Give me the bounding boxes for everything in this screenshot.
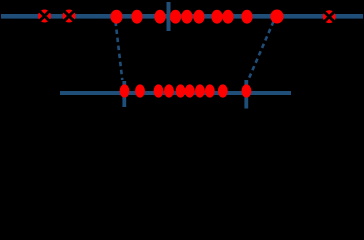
- dashed connector left: [116, 22, 123, 81]
- bottom mutation dot b: [135, 84, 145, 97]
- top tick mark (centromere): [167, 2, 171, 31]
- bottom mutation dot g: [195, 84, 205, 97]
- bottom mutation dot f: [185, 84, 195, 97]
- top mutation dot E: [181, 10, 192, 24]
- top mutation dot C: [154, 10, 165, 24]
- top mutation dot B: [131, 10, 142, 24]
- top mutation dot I: [241, 10, 252, 24]
- crossed-out mutation dot 1: [38, 10, 51, 23]
- crossed-out mutation dot 2: [63, 10, 76, 23]
- top mutation dot F: [193, 10, 204, 24]
- bottom right boundary tick: [244, 80, 248, 109]
- bottom left boundary tick: [122, 81, 126, 107]
- top mutation dot J (anchor of right connector): [270, 10, 283, 24]
- top chromosome line: [1, 14, 363, 19]
- top mutation dot G: [211, 10, 222, 24]
- top mutation dot H: [222, 10, 233, 24]
- dashed connector right: [248, 22, 274, 81]
- bottom mutation dot j (on right tick): [241, 84, 251, 97]
- bottom mutation dot e: [176, 84, 186, 97]
- crossed-out mutation dot 3: [323, 10, 336, 23]
- top mutation dot D: [170, 10, 181, 24]
- bottom mutation dot a (on left tick): [120, 84, 130, 97]
- bottom mutation dot c: [154, 84, 164, 97]
- bottom mutation dot i: [218, 84, 228, 97]
- bottom mutation dot d: [164, 84, 174, 97]
- bottom mutation dot h: [205, 84, 215, 97]
- bottom zoomed-region line: [60, 91, 291, 95]
- top mutation dot A (anchor of left connector): [111, 10, 123, 24]
